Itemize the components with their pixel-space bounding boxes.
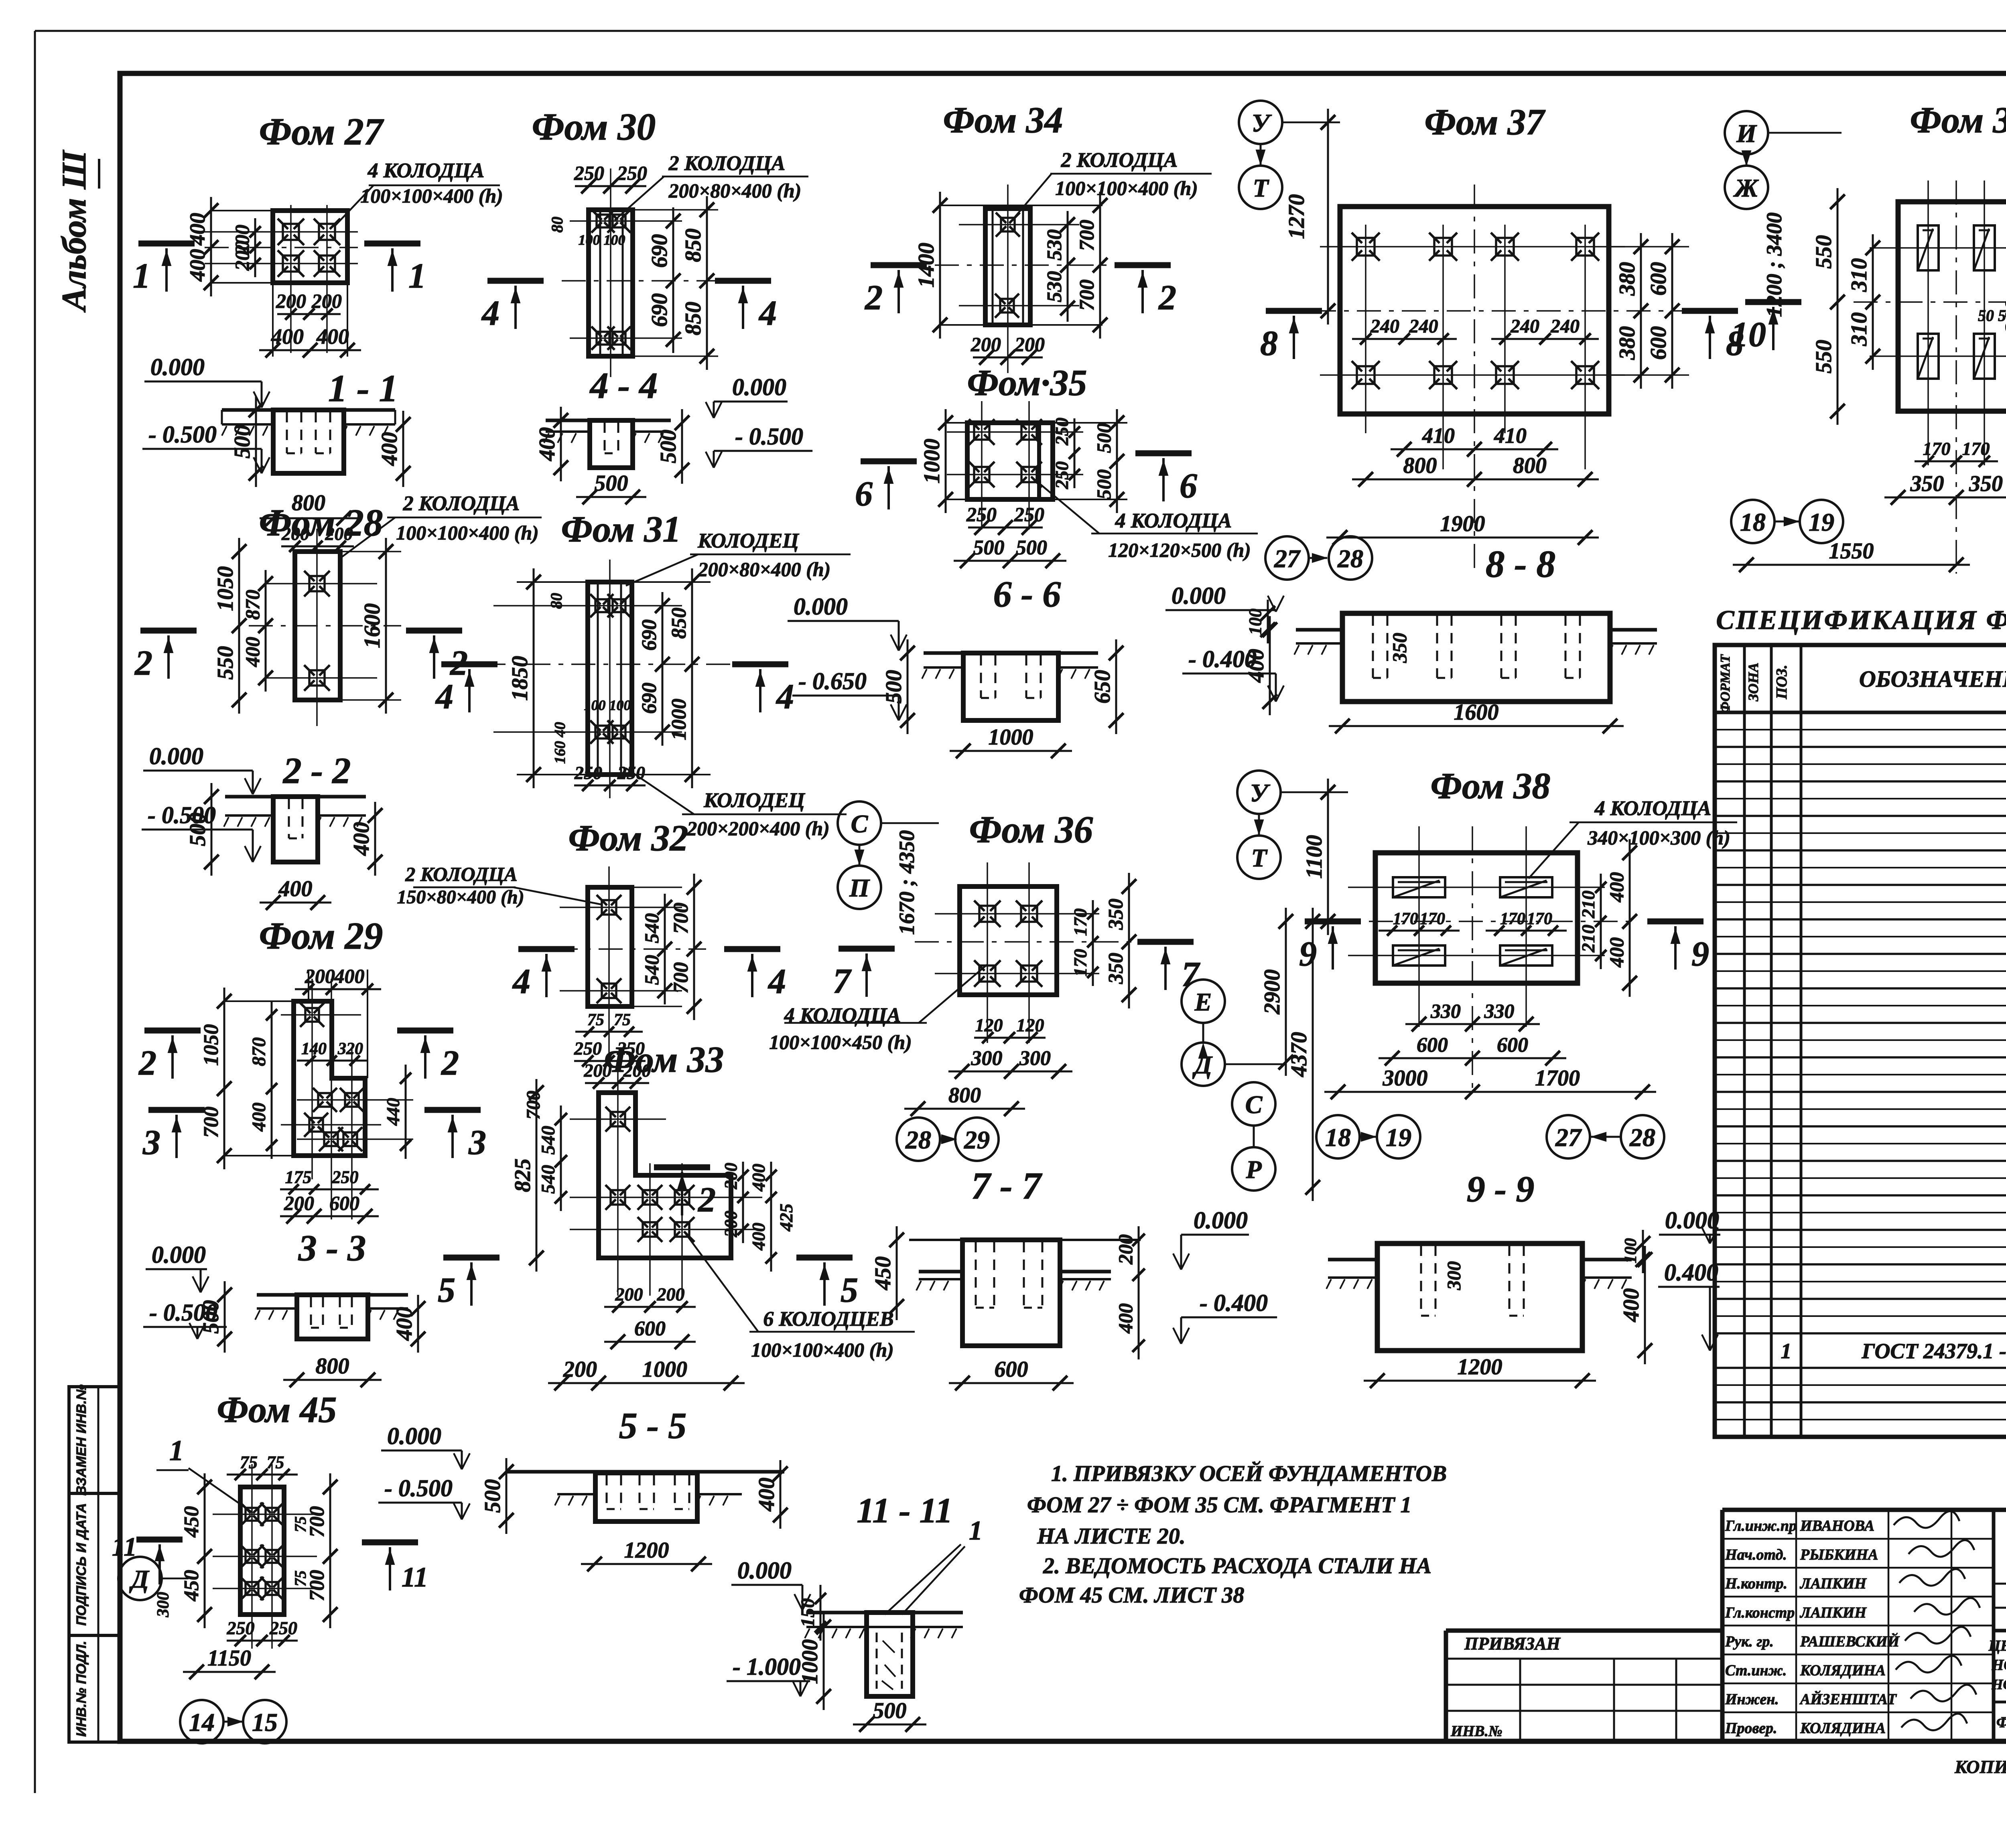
svg-text:800: 800 [948, 1083, 981, 1107]
svg-text:530: 530 [1043, 271, 1066, 302]
section 4-4 levels [706, 374, 812, 468]
svg-text:Гл.инж.пр: Гл.инж.пр [1725, 1517, 1797, 1534]
svg-text:170: 170 [1393, 910, 1418, 928]
plan Фом 39 center lines [1854, 181, 2006, 574]
plan Фом 37 axis numbers 27 28 [1265, 536, 1372, 580]
plan Фом 30 top dim [574, 162, 647, 193]
plan Фом 33 center lines [570, 1070, 762, 1296]
label Фом 36 [969, 808, 1093, 851]
svg-text:1: 1 [133, 257, 150, 296]
svg-text:300: 300 [971, 1047, 1003, 1070]
svg-text:80: 80 [547, 593, 565, 609]
svg-text:250: 250 [332, 1167, 359, 1187]
svg-text:6 - 6: 6 - 6 [993, 574, 1061, 615]
svg-text:600: 600 [1646, 262, 1671, 296]
svg-text:250: 250 [1014, 503, 1044, 525]
plan Фом 34 anchor bolts [995, 213, 1020, 318]
svg-text:9: 9 [1299, 935, 1317, 974]
svg-text:540: 540 [538, 1126, 559, 1155]
svg-text:410: 410 [1494, 424, 1527, 448]
plan Фом 45 left dims [180, 1473, 212, 1628]
plan Фом 28 cut 2 left [134, 631, 197, 683]
plan Фом 32 center lines [554, 866, 706, 1067]
svg-text:3000: 3000 [1383, 1066, 1428, 1091]
plan Фом 33 top dim [584, 1060, 651, 1089]
svg-text:9 - 9: 9 - 9 [1467, 1168, 1535, 1209]
plan Фом 34 center lines [935, 185, 1111, 373]
svg-text:Рук. гр.: Рук. гр. [1725, 1633, 1774, 1650]
section 3-3 levels [143, 1241, 227, 1339]
plan Фом 33 left dims [510, 1079, 567, 1272]
svg-text:ИНВ.№: ИНВ.№ [1450, 1723, 1502, 1740]
svg-text:100 100: 100 100 [584, 697, 631, 713]
svg-text:400: 400 [754, 1478, 779, 1512]
svg-text:0.000: 0.000 [1665, 1207, 1719, 1233]
svg-text:НА ЛИСТЕ 20.: НА ЛИСТЕ 20. [1037, 1524, 1186, 1549]
svg-text:Р: Р [1245, 1155, 1262, 1184]
plan Фом 29 left dims [200, 988, 277, 1169]
plan Фом 31 right dims [638, 568, 699, 788]
title block [1446, 1472, 2006, 1777]
svg-text:Ст.инж.: Ст.инж. [1725, 1662, 1787, 1679]
svg-text:170: 170 [1962, 438, 1990, 459]
plan Фом 37 axis circles У Т [1239, 101, 1340, 209]
plan Фом 33 right dims [721, 1162, 796, 1272]
plan Фом 34 left dim [914, 192, 947, 339]
svg-text:7: 7 [833, 962, 852, 1001]
plan Фом 38 axis numbers 18 19 [1316, 1115, 1420, 1158]
svg-text:140: 140 [301, 1040, 327, 1058]
left sidebar box ИНВ № ПОДЛ [69, 1635, 120, 1742]
section 1-1 dims [230, 396, 410, 525]
svg-text:2: 2 [441, 1044, 459, 1083]
svg-text:450: 450 [871, 1256, 895, 1290]
svg-text:170: 170 [1500, 910, 1525, 928]
svg-text:6: 6 [1180, 467, 1197, 505]
section 8-8 body [1294, 613, 1657, 702]
plan Фом 30 cut 4 left [481, 281, 544, 333]
svg-text:1600: 1600 [1454, 700, 1499, 725]
label section 7-7 [971, 1164, 1043, 1207]
svg-text:250: 250 [574, 1038, 602, 1059]
svg-text:650: 650 [1090, 670, 1115, 704]
svg-text:400: 400 [392, 1307, 417, 1341]
svg-text:2: 2 [697, 1181, 716, 1219]
svg-text:- 0.500: - 0.500 [149, 1299, 217, 1326]
label section 2-2 [282, 750, 351, 791]
svg-text:400: 400 [1605, 872, 1628, 903]
note Колодец 200x200x400 [626, 768, 847, 840]
svg-text:КОЛЯДИНА: КОЛЯДИНА [1800, 1662, 1886, 1679]
svg-text:300: 300 [1019, 1047, 1051, 1070]
section 11-11 dims [797, 1585, 926, 1732]
svg-text:2 - 2: 2 - 2 [282, 750, 351, 791]
svg-text:0.000: 0.000 [150, 354, 205, 380]
plan Фом 29 mid dims [297, 1040, 368, 1066]
section 7-7 dims [871, 1226, 1145, 1390]
svg-text:170: 170 [1070, 909, 1090, 936]
svg-text:120×120×500 (h): 120×120×500 (h) [1108, 539, 1251, 561]
plan Фом 45 axis Д [118, 1557, 189, 1618]
svg-text:4 КОЛОДЦА: 4 КОЛОДЦА [367, 159, 485, 182]
svg-text:240: 240 [1550, 316, 1580, 337]
section 2-2 dims [185, 783, 382, 910]
svg-text:210: 210 [1578, 925, 1598, 953]
svg-text:400: 400 [271, 325, 304, 349]
svg-text:250: 250 [617, 162, 647, 184]
svg-text:ПОДПИСЬ И ДАТА: ПОДПИСЬ И ДАТА [74, 1503, 89, 1626]
svg-text:4 КОЛОДЦА: 4 КОЛОДЦА [1115, 509, 1232, 532]
svg-text:800: 800 [316, 1354, 349, 1379]
svg-text:825: 825 [510, 1158, 535, 1192]
plan Фом 35 anchor bolts [969, 419, 1042, 487]
svg-text:0.000: 0.000 [152, 1241, 206, 1268]
svg-text:500: 500 [656, 430, 681, 463]
label Фом 27 [259, 110, 384, 153]
svg-text:ПРИВЯЗАН: ПРИВЯЗАН [1464, 1634, 1561, 1653]
svg-text:1000: 1000 [668, 699, 690, 740]
plan Фом 39 anchor slots [1918, 225, 1995, 379]
plan Фом 45 bottom dims [183, 1618, 298, 1679]
svg-text:870: 870 [248, 1037, 270, 1066]
section 2-2 levels [142, 743, 261, 862]
svg-text:27: 27 [1274, 544, 1301, 573]
plan Фом 38 axis numbers 27 28 [1547, 1115, 1664, 1158]
svg-text:15: 15 [252, 1708, 278, 1736]
svg-text:200: 200 [623, 1060, 651, 1081]
svg-text:310: 310 [1847, 312, 1872, 347]
svg-text:Фом 27: Фом 27 [259, 110, 384, 153]
svg-text:4: 4 [758, 294, 777, 333]
svg-text:200×200×400 (h): 200×200×400 (h) [686, 817, 830, 840]
svg-text:1550: 1550 [1829, 539, 1874, 564]
svg-text:П: П [849, 874, 870, 902]
svg-text:75: 75 [587, 1011, 604, 1029]
plan Фом 38 wells note [1529, 797, 1737, 878]
note Колодец 200x80x400 [626, 529, 851, 586]
svg-text:4: 4 [481, 294, 499, 333]
svg-text:250: 250 [966, 503, 997, 525]
plan Фом 36 axis numbers 28 29 [897, 1118, 999, 1161]
plan Фом 30 wells note [615, 152, 808, 220]
svg-text:200: 200 [1114, 1234, 1137, 1265]
plan Фом 27 bottom dims [259, 290, 361, 357]
plan Фом 35 cut 6 left [855, 461, 917, 513]
section 7-7 body [909, 1240, 1141, 1346]
plan Фом 30 right dims [633, 196, 718, 370]
svg-text:700: 700 [1076, 220, 1098, 251]
svg-text:- 0.500: - 0.500 [735, 423, 803, 450]
svg-text:4 - 4: 4 - 4 [589, 365, 658, 406]
plan Фом 29 cut 3 left [142, 1110, 205, 1162]
plan Фом 37 bottom dims [1326, 424, 1599, 545]
svg-text:18: 18 [1325, 1123, 1351, 1152]
label Фом 35 [967, 362, 1087, 403]
svg-text:1150: 1150 [207, 1646, 251, 1671]
svg-text:Фом 30: Фом 30 [532, 105, 656, 148]
svg-text:14: 14 [189, 1708, 215, 1736]
svg-text:250: 250 [269, 1618, 297, 1638]
svg-text:75: 75 [614, 1011, 631, 1029]
svg-text:ГОСТ 24379.1 - 80: ГОСТ 24379.1 - 80 [1862, 1339, 2006, 1363]
plan Фом 35 left dim [920, 409, 953, 513]
svg-text:500: 500 [480, 1479, 505, 1513]
plan Фом 39 axis numbers 18 19 [1731, 500, 1843, 543]
svg-text:100×100×450 (h): 100×100×450 (h) [769, 1031, 912, 1053]
svg-text:5: 5 [841, 1271, 858, 1310]
plan Фом 29 cut 3 right [424, 1110, 486, 1162]
plan Фом 34 cut 2 right [1115, 265, 1176, 317]
svg-text:Фом 34: Фом 34 [943, 99, 1063, 140]
plan Фом 37 center lines [1312, 185, 1685, 570]
svg-text:700: 700 [523, 1091, 544, 1120]
plan Фом 28 left dims [213, 538, 273, 714]
svg-text:АЙЗЕНШТАТ: АЙЗЕНШТАТ [1799, 1691, 1897, 1708]
svg-text:3 - 3: 3 - 3 [298, 1227, 366, 1268]
svg-text:У: У [1250, 779, 1271, 807]
svg-text:700: 700 [670, 903, 692, 934]
svg-text:- 0.500: - 0.500 [148, 802, 216, 828]
label Фом 28 [259, 501, 383, 544]
svg-text:540: 540 [640, 955, 663, 985]
svg-text:600: 600 [634, 1317, 666, 1340]
svg-text:4 КОЛОДЦА: 4 КОЛОДЦА [1594, 797, 1712, 820]
plan Фом 35 cut 6 right [1135, 453, 1197, 505]
svg-text:400: 400 [248, 1103, 270, 1132]
svg-text:1: 1 [969, 1515, 983, 1546]
plan Фом 28 top dim [281, 523, 354, 552]
svg-text:100×100×400 (h): 100×100×400 (h) [360, 185, 503, 207]
svg-text:400: 400 [316, 325, 349, 349]
svg-text:4: 4 [767, 962, 786, 1001]
svg-text:850: 850 [681, 302, 706, 335]
plan Фом 31 left dims [508, 568, 569, 788]
plan Фом 38 right dims [1578, 839, 1637, 997]
svg-text:800: 800 [1513, 453, 1547, 478]
plan Фом 29 anchor bolts [300, 1003, 364, 1151]
svg-text:ФОМ 27 ÷ ФОМ 35 СМ. ФРАГМЕНТ: ФОМ 27 ÷ ФОМ 35 СМ. ФРАГМЕНТ 1 [1027, 1493, 1412, 1517]
plan Фом 33 cut 2 top [654, 1167, 716, 1219]
svg-text:ФУНДАМЕНТЫ ПОД ОБОРУДОВАНИЕ: ФУНДАМЕНТЫ ПОД ОБОРУДОВАНИЕ [1996, 1714, 2006, 1731]
plan Фом 27 wells note [334, 159, 503, 227]
plan Фом 36 outline [960, 886, 1057, 995]
svg-text:Ж: Ж [1733, 174, 1759, 202]
svg-text:5 - 5: 5 - 5 [619, 1405, 687, 1446]
svg-text:0.000: 0.000 [149, 743, 203, 769]
plan Фом 45 axis numbers 14 15 [180, 1700, 286, 1743]
plan Фом 33 cut 5 right [796, 1258, 858, 1310]
section 9-9 body [1326, 1243, 1632, 1351]
svg-text:690: 690 [647, 234, 672, 268]
svg-text:ОБОЗНАЧЕНИЕ: ОБОЗНАЧЕНИЕ [1859, 666, 2006, 692]
plan Фом 32 wells note [397, 863, 602, 908]
svg-text:700: 700 [1076, 280, 1098, 311]
svg-text:6 КОЛОДЦЕВ: 6 КОЛОДЦЕВ [763, 1308, 893, 1331]
svg-text:400: 400 [377, 432, 402, 466]
svg-text:400: 400 [748, 1164, 769, 1192]
svg-text:100×100×400 (h): 100×100×400 (h) [396, 521, 539, 544]
svg-text:500: 500 [595, 471, 628, 496]
svg-text:1. ПРИВЯЗКУ ОСЕЙ ФУНДАМЕНТО: 1. ПРИВЯЗКУ ОСЕЙ ФУНДАМЕНТОВ [1051, 1461, 1447, 1486]
specification table [1715, 605, 2006, 1437]
svg-text:И: И [1736, 119, 1757, 148]
plan Фом 45 top dim [227, 1452, 298, 1480]
svg-text:440: 440 [383, 1098, 403, 1126]
plan Фом 38 axis circles Е Д С Р [1182, 980, 1286, 1191]
plan Фом 34 right dims [1043, 192, 1107, 339]
label Фом 45 [217, 1389, 337, 1430]
svg-text:РЫБКИНА: РЫБКИНА [1800, 1546, 1878, 1563]
svg-text:170: 170 [1527, 910, 1552, 928]
plan Фом 32 cut 4 left [512, 949, 575, 1001]
svg-text:2900: 2900 [1260, 970, 1285, 1015]
svg-text:300: 300 [154, 1592, 173, 1618]
section 9-9 dims [1364, 1230, 1652, 1388]
svg-text:320: 320 [337, 1040, 363, 1058]
label section 3-3 [298, 1227, 366, 1268]
plan Фом 29 center lines [281, 979, 413, 1219]
svg-text:120: 120 [975, 1015, 1003, 1035]
label section 5-5 [619, 1405, 687, 1446]
section 6-6 levels [788, 593, 907, 720]
svg-text:380: 380 [1615, 326, 1640, 360]
svg-text:8: 8 [1260, 324, 1278, 363]
svg-text:500: 500 [873, 1698, 907, 1723]
plan Фом 28 right dim [340, 538, 401, 714]
svg-text:- 0.500: - 0.500 [384, 1475, 453, 1501]
svg-text:200: 200 [1014, 333, 1045, 355]
plan Фом 39 outline [1898, 202, 2006, 411]
plan Фом 37 inner dims [1352, 316, 1599, 345]
plan Фом 29 right dims [383, 1065, 411, 1159]
label Фом 39 [1910, 99, 2006, 140]
svg-text:400: 400 [349, 822, 374, 856]
left sidebar box ВЗАМЕН ИНВ № [69, 1384, 120, 1495]
plan Фом 34 cut 2 left [864, 265, 927, 317]
label Фом 30 [532, 105, 656, 148]
section 5-5 dims [480, 1458, 788, 1571]
svg-text:690: 690 [638, 683, 661, 714]
plan Фом 35 bottom dims [954, 503, 1066, 568]
svg-text:1000: 1000 [920, 439, 944, 484]
plan Фом 36 wells note [769, 965, 987, 1053]
svg-text:250: 250 [1052, 418, 1072, 446]
svg-text:690: 690 [638, 619, 661, 651]
plan Фом 45 anchor bolts [240, 1503, 284, 1600]
svg-text:2: 2 [138, 1044, 156, 1083]
svg-text:330: 330 [1484, 1000, 1515, 1022]
svg-text:100×100×400 (h): 100×100×400 (h) [1055, 177, 1198, 199]
svg-text:С: С [1245, 1090, 1263, 1119]
plan Фом 34 bottom dim [971, 333, 1045, 365]
svg-text:2 КОЛОДЦА: 2 КОЛОДЦА [405, 863, 518, 885]
label section 4-4 [589, 365, 658, 406]
plan Фом 35 wells note [1031, 477, 1258, 561]
plan Фом 27 center lines [205, 205, 358, 353]
svg-text:4: 4 [512, 962, 530, 1001]
svg-text:1600: 1600 [360, 603, 385, 648]
svg-text:10: 10 [1731, 315, 1766, 354]
svg-text:ЦЕХ ПО ИЗГОТОВЛЕНИЮ СТРОИТЕЛЬ-: ЦЕХ ПО ИЗГОТОВЛЕНИЮ СТРОИТЕЛЬ- [1988, 1637, 2006, 1654]
plan Фом 30 center lines [562, 168, 722, 377]
svg-text:400: 400 [334, 965, 365, 987]
svg-text:100: 100 [1622, 1238, 1640, 1264]
svg-text:600: 600 [1646, 326, 1671, 360]
svg-text:8 - 8: 8 - 8 [1486, 543, 1555, 585]
svg-text:550: 550 [1811, 235, 1836, 269]
svg-text:500: 500 [1092, 423, 1115, 453]
svg-text:5: 5 [438, 1271, 455, 1310]
plan Фом 45 outline [240, 1487, 284, 1615]
section 7-7 levels [1173, 1207, 1277, 1344]
svg-text:600: 600 [995, 1357, 1028, 1382]
svg-text:550: 550 [213, 646, 238, 680]
plan Фом 37 left dim [1284, 109, 1335, 325]
svg-text:2 КОЛОДЦА: 2 КОЛОДЦА [403, 492, 520, 515]
section 1-1 levels [142, 354, 270, 473]
svg-text:28: 28 [905, 1126, 931, 1154]
label Фом 37 [1425, 101, 1546, 142]
svg-text:700: 700 [670, 962, 692, 994]
label Фом 31 [561, 509, 681, 550]
svg-text:У: У [1252, 109, 1272, 137]
svg-text:850: 850 [681, 229, 706, 262]
svg-text:Фом 36: Фом 36 [969, 808, 1093, 851]
svg-text:800: 800 [1403, 453, 1437, 478]
plan Фом 27 section cut 1 right [364, 243, 426, 296]
svg-text:200: 200 [563, 1357, 597, 1382]
svg-text:200: 200 [584, 1060, 612, 1081]
plan Фом 31 center lines [481, 560, 754, 798]
svg-text:870: 870 [241, 590, 264, 620]
svg-text:600: 600 [329, 1192, 359, 1214]
svg-text:КОПИРОВАЛ: КОПИРОВАЛ [1954, 1757, 2006, 1777]
svg-text:450: 450 [180, 1506, 203, 1538]
svg-text:Провер.: Провер. [1725, 1720, 1777, 1737]
svg-text:1 - 1: 1 - 1 [328, 367, 398, 410]
plan Фом 36 bottom dims [904, 1015, 1072, 1116]
plan Фом 34 wells note [1009, 149, 1212, 223]
section 6-6 dims [881, 639, 1123, 758]
vertical album title [55, 150, 99, 313]
label Фом 32 [569, 818, 688, 858]
svg-text:0.400: 0.400 [1664, 1259, 1718, 1286]
left sidebar box ПОДПИСЬ И ДАТА [69, 1493, 120, 1635]
svg-text:850: 850 [668, 608, 690, 639]
svg-text:100 100: 100 100 [579, 232, 625, 248]
svg-text:- 0.650: - 0.650 [798, 668, 867, 694]
plan Фом 45 right dims [291, 1473, 337, 1628]
plan Фом 29 cut 2 right [397, 1030, 459, 1083]
plan Фом 35 right dims [1052, 409, 1124, 513]
svg-text:200: 200 [657, 1284, 685, 1304]
svg-text:200: 200 [721, 1211, 741, 1237]
plan Фом 37 cut 8 right [1682, 311, 1744, 363]
plan Фом 31 inner dims [574, 697, 646, 791]
svg-text:0.000: 0.000 [732, 374, 786, 400]
svg-text:200: 200 [281, 523, 309, 544]
svg-text:330: 330 [1430, 1000, 1461, 1022]
svg-text:500: 500 [230, 425, 255, 458]
plan Фом 30 inner dims [548, 217, 625, 248]
section 3-3 body [255, 1295, 408, 1339]
svg-text:6: 6 [855, 475, 873, 513]
svg-text:Д: Д [129, 1565, 150, 1593]
label section 6-6 [993, 574, 1061, 615]
svg-text:150: 150 [797, 1598, 818, 1627]
svg-text:18: 18 [1740, 508, 1766, 536]
svg-text:2 КОЛОДЦА: 2 КОЛОДЦА [668, 152, 786, 175]
